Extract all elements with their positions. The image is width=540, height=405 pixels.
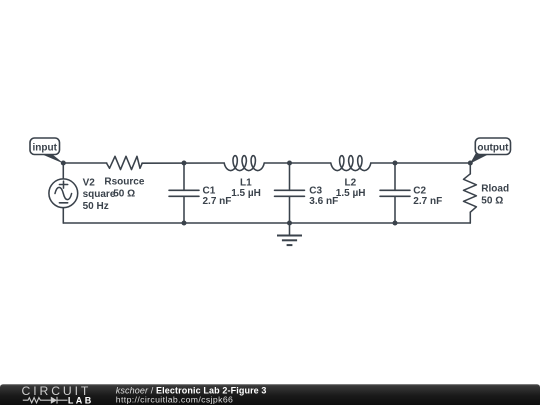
capacitor C2 plates (380, 190, 410, 196)
inductor L2 (331, 156, 371, 171)
node input (61, 161, 66, 166)
capacitor C3 stem bottom (289, 196, 291, 223)
wire V2 down to bottom rail (62, 208, 64, 223)
ground bar 3 (287, 244, 293, 246)
node C3 top (287, 161, 292, 166)
ground bar 2 (282, 239, 297, 241)
svg-text:2.7 nF: 2.7 nF (413, 196, 442, 207)
svg-text:Rload: Rload (481, 184, 509, 195)
capacitor C1 stem bottom (183, 196, 185, 223)
input flag box (30, 138, 60, 155)
svg-text:C2: C2 (413, 185, 426, 196)
ground stem (289, 223, 291, 236)
node output (468, 161, 473, 166)
node C1 top (182, 161, 187, 166)
bottom rail wire (63, 222, 470, 224)
capacitor C1 stem top (183, 163, 185, 190)
svg-text:2.7 nF: 2.7 nF (203, 196, 232, 207)
node C2 top (393, 161, 398, 166)
voltage source V2 circle (49, 179, 78, 208)
output flag box (475, 138, 510, 155)
svg-text:L1: L1 (240, 177, 252, 188)
svg-text:50 Hz: 50 Hz (83, 201, 109, 212)
ground bar 1 (277, 235, 302, 237)
svg-text:LAB: LAB (68, 396, 94, 405)
input flag pointer (37, 152, 64, 164)
output flag pointer (470, 152, 493, 164)
svg-text:C1: C1 (203, 185, 216, 196)
node C2 bottom (393, 221, 398, 226)
wire output node down to Rload (469, 163, 471, 174)
V2 sine wave (55, 187, 72, 199)
logo diode triangle (51, 397, 57, 404)
capacitor C2 stem top (394, 163, 396, 190)
V2 minus sign (59, 202, 67, 204)
svg-text:square: square (83, 189, 116, 200)
wire Rsource to L1 (142, 162, 224, 164)
svg-text:1.5 µH: 1.5 µH (336, 188, 366, 199)
svg-text:input: input (32, 142, 57, 153)
svg-text:Rsource: Rsource (104, 177, 144, 188)
capacitor C3 plates (275, 190, 305, 196)
wire top from input node to Rsource (63, 162, 107, 164)
svg-text:3.6 nF: 3.6 nF (309, 196, 338, 207)
svg-text:C3: C3 (309, 185, 322, 196)
svg-text:http://circuitlab.com/csjpk66: http://circuitlab.com/csjpk66 (116, 395, 233, 405)
resistor Rload vertical (464, 174, 477, 212)
svg-text:output: output (477, 142, 509, 153)
capacitor C2 stem bottom (394, 196, 396, 223)
wire L1 to L2 (264, 162, 331, 164)
node C3 bottom / ground (287, 221, 292, 226)
svg-text:50 Ω: 50 Ω (481, 196, 503, 207)
inductor L1 (224, 156, 264, 171)
wire L2 to output node (371, 162, 471, 164)
capacitor C1 plates (169, 190, 199, 196)
wire Rload to bottom rail (469, 212, 471, 223)
svg-text:50 Ω: 50 Ω (113, 188, 135, 199)
resistor Rsource (107, 156, 143, 169)
svg-text:L2: L2 (345, 177, 357, 188)
wire input node down to V2 (62, 163, 64, 179)
svg-text:1.5 µH: 1.5 µH (231, 188, 261, 199)
V2 plus sign (59, 181, 67, 188)
logo resistor zigzag and diode (23, 397, 68, 404)
capacitor C3 stem top (289, 163, 291, 190)
svg-text:V2: V2 (83, 177, 96, 188)
node C1 bottom (182, 221, 187, 226)
